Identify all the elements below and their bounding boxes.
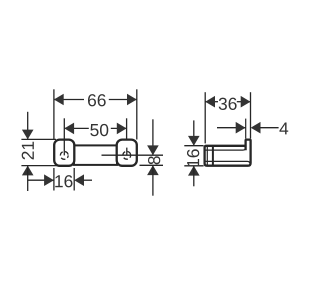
dim 8 bottom extension line — [140, 164, 164, 166]
dim 4 value label — [279, 122, 288, 134]
dim 16 front right extension line — [73, 168, 75, 191]
dim 66 line left segment — [54, 99, 84, 101]
dim 66 line right segment — [109, 99, 137, 101]
dim 36 line right segment — [237, 101, 251, 103]
dim 16 side bottom arrowhead — [188, 166, 200, 176]
dim 50 left extension line — [63, 118, 65, 139]
dim 36 line left segment — [205, 101, 218, 103]
dim 4 right tail line — [260, 127, 279, 129]
dim 16 front left arrowhead — [44, 174, 54, 186]
dim 16 side bottom extension line — [184, 165, 203, 167]
dim 16 side value label (rotated) — [187, 149, 199, 166]
dim 21 bottom arrowhead — [22, 166, 34, 176]
dim 16 front left extension line — [53, 168, 55, 191]
dim 50 line right segment — [111, 127, 127, 129]
dim 66 left extension line — [53, 89, 55, 139]
dim 16 front line left segment — [28, 179, 54, 181]
dim 50 line left segment — [64, 127, 89, 129]
dim 36 left arrowhead — [205, 96, 215, 108]
centerline through right hook (top extension of dim 8) — [102, 154, 164, 156]
side view: wall plate thin edge line — [206, 147, 208, 165]
dim 36 right extension line — [250, 92, 252, 138]
dim 36 right arrowhead — [241, 96, 251, 108]
dim 16 side top arrowhead — [188, 136, 200, 146]
dim 66 right extension line — [136, 89, 138, 139]
left hook center mark circle — [60, 152, 68, 160]
dim 16 front value label — [55, 175, 72, 187]
dim 66 right arrowhead — [127, 94, 137, 106]
dim 8 bottom arrowhead — [147, 165, 159, 175]
dim 21 upper tail line — [27, 112, 29, 140]
side view: wall plate thick edge line — [212, 147, 214, 165]
side view: inner top edge line — [205, 148, 246, 150]
dim 4 right arrowhead — [251, 122, 261, 134]
dim 21 top extension line — [21, 138, 56, 140]
dim 16 front right arrowhead — [74, 174, 84, 186]
dim 8 top arrowhead — [147, 145, 159, 155]
dim 50 left arrowhead — [64, 123, 74, 135]
dim 16 front right tail line — [84, 179, 92, 181]
right hook center mark circle — [123, 151, 131, 159]
left hook centerline (vertical) — [63, 140, 65, 156]
dim 16 side lower tail line — [193, 166, 195, 186]
front view: left hook plate — [54, 140, 74, 166]
dim 50 value label — [90, 124, 108, 136]
dim 36 value label — [219, 98, 237, 110]
dim 21 value label (rotated) — [22, 142, 34, 160]
dim 36 left extension line — [204, 92, 206, 143]
dim 4 left tail line — [217, 127, 246, 129]
dim 4 inner extension line — [245, 119, 247, 139]
dim 21 lower tail line — [27, 166, 29, 191]
side view: hook profile outline with wall plate and lip — [205, 140, 251, 166]
dim 16 side top extension line — [184, 145, 203, 147]
dim 66 value label — [88, 94, 106, 106]
dim 50 right extension line — [126, 118, 128, 139]
right hook centerline (vertical stub) — [126, 148, 128, 156]
dim 8 value label (rotated) — [148, 156, 160, 164]
dim 8 upper tail line — [152, 119, 154, 155]
dim 21 bottom extension line — [21, 165, 58, 167]
dim 8 lower tail line — [152, 165, 154, 195]
dim 4 left arrowhead — [236, 122, 246, 134]
dim 50 right arrowhead — [117, 123, 127, 135]
front view: right hook plate — [117, 140, 137, 166]
front view: connecting back bar — [74, 145, 117, 165]
dim 66 left arrowhead — [54, 94, 64, 106]
side view: inner bottom edge line — [205, 161, 251, 164]
dim 21 top arrowhead — [22, 130, 34, 140]
dim 16 side upper tail line — [193, 120, 195, 145]
